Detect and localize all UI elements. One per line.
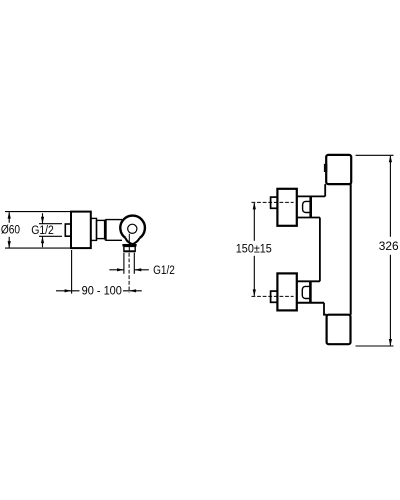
ext line bottom Ø60 (5, 247, 71, 249)
bar left edge below cap (324, 184, 326, 196)
funnel left edge (126, 238, 133, 244)
arrow 90-100 left (129, 289, 136, 292)
bottom cap knob (327, 315, 351, 345)
arrow 150 up (253, 202, 256, 209)
dimension 150 line (253, 203, 255, 296)
arrow 326 down (389, 339, 392, 346)
ext line 326 top (356, 154, 394, 156)
nut bottom edge (124, 250, 136, 252)
bottom inlet tab (271, 291, 278, 302)
svg-text:150±15: 150±15 (236, 243, 272, 255)
middle bar left edge (319, 218, 321, 282)
top union square (277, 189, 296, 226)
dimension Ø60 line (8, 212, 10, 247)
arrow 150 down (253, 289, 256, 296)
top centerline dashed (252, 201, 294, 203)
outlet ext line left (123, 253, 125, 274)
top nipple (303, 201, 310, 212)
dimension 90-100 right segment (123, 290, 142, 292)
ext line top Ø60 (5, 211, 71, 213)
arrow 90-100 right (65, 289, 72, 292)
ext line G1/2 top (39, 223, 62, 225)
body ext line vertical (71, 250, 73, 294)
outlet ext line right (133, 253, 135, 274)
outlet centerline dashed (128, 253, 130, 293)
inner circle (128, 224, 137, 233)
bar right edge (350, 184, 352, 315)
arrow Ø60 up (8, 212, 11, 219)
dimension 326 line (389, 156, 391, 345)
svg-text:Ø60: Ø60 (1, 225, 20, 237)
top connector top line (297, 195, 325, 197)
bottom centerline dashed (252, 295, 294, 297)
arrow outlet right (117, 268, 124, 271)
top union nut (309, 196, 312, 217)
arrow G1/2 up (41, 236, 44, 243)
dimension G1/2 outlet right segment (134, 269, 149, 271)
neck (97, 220, 105, 238)
svg-text:G1/2: G1/2 (31, 225, 54, 237)
bottom union nut (309, 282, 312, 303)
cylinder cap edge (105, 220, 107, 241)
top inlet tab (271, 197, 278, 208)
ext line G1/2 bottom (39, 235, 62, 237)
top cap knob (326, 155, 351, 184)
valve cylinder (106, 220, 122, 241)
dimension 90-100 left segment (56, 290, 80, 292)
outlet nut (124, 246, 135, 251)
outlet centerline solid part (128, 234, 130, 253)
ext line 326 bottom (356, 345, 394, 347)
svg-text:90 - 100: 90 - 100 (82, 285, 122, 297)
shoulder step (91, 218, 97, 240)
wall escutcheon body (71, 212, 91, 249)
funnel right edge (133, 238, 140, 244)
dimension G1/2 line (42, 213, 44, 247)
washer (122, 244, 136, 246)
arrow outlet left (134, 268, 141, 271)
knob circle open at bottom (120, 216, 145, 238)
bottom union square (277, 273, 296, 310)
arrow 326 up (389, 155, 392, 162)
cap detail blob (324, 164, 327, 172)
top connector bottom line (297, 217, 320, 219)
dimension G1/2 outlet left segment (109, 269, 124, 271)
bottom nipple (302, 286, 309, 298)
bottom connector top line (297, 280, 320, 282)
bottom connector bottom line (297, 302, 324, 304)
svg-text:326: 326 (379, 241, 399, 253)
arrow G1/2 down (41, 217, 44, 224)
svg-text:G1/2: G1/2 (153, 265, 175, 277)
arrow Ø60 down (8, 241, 11, 248)
bottom step edge (324, 303, 327, 315)
inlet tab G1/2 (65, 224, 71, 236)
